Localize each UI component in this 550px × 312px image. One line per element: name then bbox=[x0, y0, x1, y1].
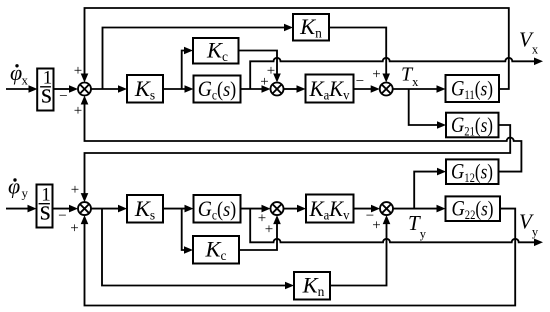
arrowhead into K_c (x) bbox=[184, 47, 193, 55]
wire G_c (x) output to J2x bbox=[241, 88, 263, 90]
wire tap up to K_c (x) input bbox=[182, 51, 185, 90]
svg-text:y: y bbox=[22, 186, 29, 201]
arrowhead into K_s (y) bbox=[118, 205, 127, 213]
arrowhead into J1y bottom bbox=[81, 215, 89, 224]
arrowhead into J1x bottom bbox=[81, 96, 89, 105]
wire input phi_x to 1/s bbox=[6, 88, 29, 90]
arrowhead into J3y left bbox=[371, 205, 380, 213]
block K_aK_v (x) bbox=[306, 75, 354, 103]
wire K_aK_v (x) to J3x bbox=[354, 88, 372, 90]
summing junction J2x bbox=[271, 83, 284, 96]
arrowhead into G21 bbox=[437, 121, 446, 129]
block K_c (x) bbox=[193, 38, 239, 64]
arrowhead into J1y top bbox=[81, 193, 89, 202]
arrowhead V_x output bbox=[534, 58, 543, 66]
arrowhead into J2y bottom bbox=[273, 215, 281, 224]
arrowhead into J3y bottom bbox=[383, 215, 391, 224]
arrowhead into G12 bbox=[437, 168, 446, 176]
block 1/s (y) bbox=[37, 185, 53, 228]
wire tap down to K_n (y) input bbox=[102, 209, 286, 286]
wire K_s to G_c (y) bbox=[163, 208, 185, 210]
arrowhead into J2y left bbox=[262, 205, 271, 213]
arrowhead into K_aK_v (x) bbox=[297, 85, 306, 93]
wire tap down to K_c (y) input bbox=[182, 209, 185, 250]
svg-text:+: + bbox=[74, 63, 82, 79]
wire tap up to K_n (x) input bbox=[103, 28, 285, 90]
arrowhead into K_n (x) bbox=[284, 24, 293, 32]
wire K_c (y) output up to J2y bbox=[239, 224, 277, 250]
arrowhead into G_c (y) bbox=[185, 205, 194, 213]
wire J3y to G22 with T_y node bbox=[393, 208, 437, 210]
wire K_s to G_c (x) bbox=[163, 88, 185, 90]
arrowhead into K_n (y) bbox=[285, 282, 294, 290]
block G11(s) bbox=[446, 75, 500, 102]
wire G12 output up to line A into J1x bottom (hop over G21 drop) bbox=[85, 105, 522, 172]
label phi_x dot input bbox=[10, 60, 29, 88]
wire 1/s to J1x bbox=[54, 88, 70, 90]
arrowhead into K_c (y) bbox=[184, 246, 193, 254]
arrowhead into J2x left bbox=[262, 85, 271, 93]
arrowhead into J3x left bbox=[371, 85, 380, 93]
label 1/s (x) bbox=[40, 68, 52, 110]
svg-text:−: − bbox=[59, 89, 67, 105]
block G22(s) bbox=[446, 196, 501, 221]
svg-text:x: x bbox=[22, 73, 29, 88]
block K_aK_v (y) bbox=[306, 195, 354, 223]
wire K_n (y) output up to J3y bbox=[330, 224, 387, 286]
svg-text:φ: φ bbox=[10, 60, 22, 85]
wire tap down to G21 input bbox=[409, 89, 438, 125]
svg-text:+: + bbox=[74, 103, 82, 119]
wire input phi_y to 1/s bbox=[6, 208, 28, 210]
wire J2x to K_aK_v (x) bbox=[284, 88, 298, 90]
svg-text:Gc(s): Gc(s) bbox=[198, 76, 237, 103]
wire G21 output down to line B into J1y bbox=[85, 125, 511, 194]
wire J1x output to K_s (x) bbox=[91, 88, 119, 90]
wire 1/s to J1y bbox=[53, 208, 70, 210]
summing junction J1x bbox=[78, 83, 91, 96]
wire G11 output up and back to J1x (outer top feedback) bbox=[85, 8, 509, 89]
svg-text:+: + bbox=[70, 221, 78, 237]
block K_n (x) bbox=[293, 14, 329, 41]
arrowhead into J3x top bbox=[382, 74, 390, 83]
block G_c(s) (y) bbox=[194, 195, 241, 223]
summing junction J1y bbox=[78, 202, 91, 215]
arrowhead into J1x left bbox=[69, 85, 78, 93]
wire K_c (x) output down to J2x bbox=[239, 51, 278, 75]
block K_s (x) bbox=[127, 75, 163, 103]
wire J1y output to K_s (y) bbox=[91, 208, 119, 210]
svg-text:+: + bbox=[372, 218, 380, 234]
svg-text:φ: φ bbox=[8, 174, 20, 199]
block K_n (y) bbox=[294, 272, 330, 300]
arrowhead V_y output bbox=[534, 239, 543, 247]
svg-text:Gc(s): Gc(s) bbox=[198, 196, 237, 223]
svg-text:−: − bbox=[58, 208, 66, 224]
svg-text:−: − bbox=[356, 74, 364, 90]
wire G22 output down and back to J1y (outer bottom feedback) bbox=[85, 209, 516, 306]
block 1/s (x) bbox=[37, 69, 53, 111]
svg-text:+: + bbox=[267, 63, 275, 79]
arrowhead into J1x top bbox=[81, 74, 89, 83]
label phi_y dot input bbox=[8, 174, 29, 201]
summing junction J3y bbox=[380, 202, 393, 215]
label 1/s (y) bbox=[39, 184, 51, 226]
wire G_c (y) output to J2y bbox=[241, 208, 263, 210]
arrowhead into K_aK_v (y) bbox=[297, 205, 306, 213]
arrowhead into G22 bbox=[437, 205, 446, 213]
svg-text:+: + bbox=[372, 67, 380, 83]
svg-text:s: s bbox=[40, 196, 51, 227]
wire V_x line with hops bbox=[250, 58, 534, 89]
wire V_y line with hops bbox=[250, 209, 534, 243]
wire J2y to K_aK_v (y) bbox=[284, 208, 298, 210]
block G12(s) bbox=[446, 159, 499, 184]
arrowhead into 1/s (x) bbox=[29, 85, 38, 93]
svg-text:+: + bbox=[265, 222, 273, 238]
block K_c (y) bbox=[193, 236, 239, 264]
arrowhead into K_s (x) bbox=[118, 85, 127, 93]
arrowhead into J1y left bbox=[69, 205, 78, 213]
block G_c(s) (x) bbox=[194, 76, 241, 103]
summing junction J2y bbox=[271, 202, 284, 215]
wire K_aK_v (y) to J3y bbox=[354, 208, 372, 210]
wire K_n (x) output down to J3x bbox=[329, 28, 386, 75]
svg-text:+: + bbox=[71, 182, 79, 198]
wire J3x to G11 with T_x node bbox=[393, 88, 437, 90]
arrowhead into J2x top bbox=[273, 74, 281, 83]
arrowhead into G11 bbox=[437, 85, 446, 93]
arrowhead into 1/s (y) bbox=[28, 205, 37, 213]
summing junction J3x bbox=[380, 83, 393, 96]
wire tap up to G12 input bbox=[414, 172, 437, 209]
svg-text:s: s bbox=[41, 79, 52, 110]
arrowhead into G_c (x) bbox=[185, 85, 194, 93]
block G21(s) bbox=[446, 113, 499, 138]
block K_s (y) bbox=[127, 195, 163, 223]
